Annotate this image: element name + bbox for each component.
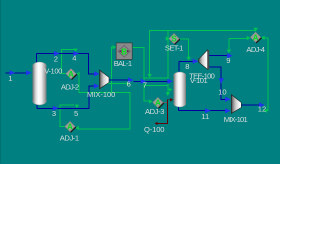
svg-text:A: A — [253, 33, 259, 42]
svg-text:1: 1 — [8, 74, 12, 83]
svg-text:ADJ-4: ADJ-4 — [246, 45, 265, 54]
svg-text:MIX-101: MIX-101 — [224, 115, 248, 124]
svg-text:ADJ-3: ADJ-3 — [145, 107, 165, 116]
svg-text:2: 2 — [54, 55, 58, 64]
svg-text:9: 9 — [226, 56, 230, 65]
svg-text:8: 8 — [185, 62, 189, 71]
svg-text:5: 5 — [74, 109, 78, 118]
svg-text:MIX-100: MIX-100 — [87, 90, 115, 99]
svg-text:3: 3 — [52, 109, 56, 118]
svg-text:6: 6 — [127, 80, 131, 89]
svg-text:Q-100: Q-100 — [144, 125, 165, 134]
svg-text:V-100: V-100 — [44, 66, 62, 75]
svg-text:S: S — [171, 35, 177, 44]
svg-text:ADJ-2: ADJ-2 — [61, 82, 79, 91]
svg-text:A: A — [67, 123, 73, 132]
svg-text:ADJ-1: ADJ-1 — [60, 134, 79, 143]
svg-text:V-101: V-101 — [190, 76, 208, 85]
svg-text:B: B — [121, 48, 127, 57]
svg-text:A: A — [68, 70, 74, 79]
svg-text:12: 12 — [258, 104, 266, 113]
svg-text:4: 4 — [72, 53, 76, 62]
svg-text:SET-1: SET-1 — [165, 44, 184, 53]
svg-text:10: 10 — [218, 87, 226, 96]
svg-text:11: 11 — [201, 112, 209, 121]
svg-text:7: 7 — [143, 81, 147, 90]
svg-text:BAL-1: BAL-1 — [114, 59, 132, 68]
